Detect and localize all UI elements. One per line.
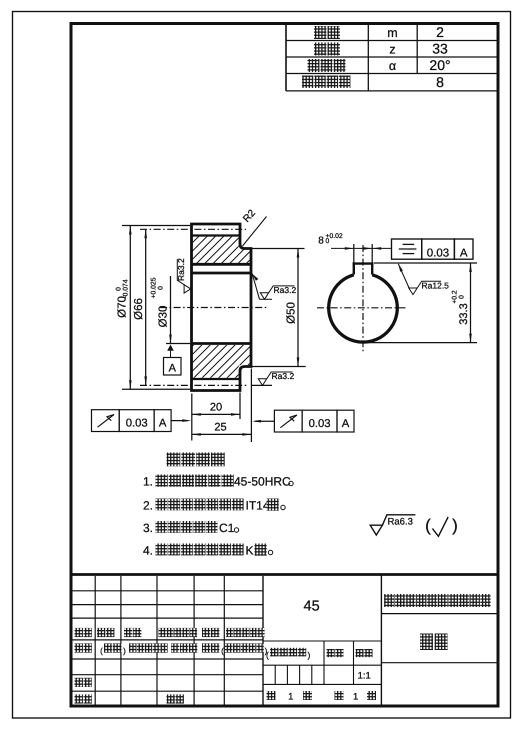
svg-text:(: ( — [221, 647, 224, 656]
svg-text:20: 20 — [210, 402, 222, 414]
svg-text:m: m — [387, 26, 397, 40]
title block left grid horizontals — [73, 590, 264, 592]
svg-text:4.: 4. — [143, 544, 153, 558]
section view axis centerline — [160, 307, 268, 309]
svg-text:): ) — [308, 650, 311, 660]
dim 33.3 dimension line — [470, 263, 472, 343]
dim Ø30 leader/dimension line — [166, 343, 190, 345]
svg-text:Ra3.2: Ra3.2 — [176, 258, 186, 281]
dim Ø50 dimension line — [297, 249, 299, 367]
svg-text:Ra3.2: Ra3.2 — [274, 285, 297, 295]
zhiliang label — [327, 649, 335, 657]
dim Ø70 extension lines — [122, 225, 190, 227]
svg-text:33: 33 — [432, 40, 448, 56]
school name — [384, 594, 394, 607]
svg-text:A: A — [460, 247, 468, 259]
bili label — [356, 649, 364, 657]
part name gear — [420, 634, 433, 651]
svg-text:): ) — [123, 647, 126, 656]
svg-text:1:1: 1:1 — [358, 670, 371, 681]
stage mark small cells — [274, 665, 276, 684]
circular runout frame right (0.03 A) — [274, 410, 302, 432]
title block row: sheji/(qianming)... — [75, 643, 83, 652]
svg-text:3.: 3. — [143, 521, 153, 535]
svg-text:33.3: 33.3 — [458, 303, 470, 324]
svg-text:Ø66: Ø66 — [133, 298, 145, 320]
bore circle (end view) — [329, 275, 398, 342]
svg-text:Ø30: Ø30 — [158, 306, 170, 328]
svg-text:25: 25 — [214, 422, 226, 434]
svg-text:2: 2 — [436, 24, 444, 40]
svg-text:8: 8 — [318, 236, 324, 247]
fillet R2 leader — [243, 217, 267, 247]
title block row: gongyi / pizhun — [75, 694, 83, 703]
svg-text:C1: C1 — [219, 521, 235, 535]
bore lines in section — [192, 272, 252, 275]
leader right frame — [255, 420, 274, 422]
svg-text:A: A — [169, 363, 177, 375]
dim Ø70 dimension line — [129, 226, 131, 390]
svg-text:0: 0 — [157, 286, 164, 290]
keyway slot — [353, 262, 355, 274]
svg-text:Ra3.2: Ra3.2 — [272, 371, 295, 381]
svg-text:45-50HRC: 45-50HRC — [234, 475, 291, 489]
table row: module m=2 — [314, 26, 327, 39]
dim 8 keyway width — [353, 244, 355, 264]
svg-text:1: 1 — [353, 692, 358, 703]
svg-text:Ra12.5: Ra12.5 — [422, 281, 450, 291]
svg-text:0: 0 — [115, 287, 122, 291]
title block top border — [71, 573, 498, 576]
table row: teeth z=33 — [314, 43, 327, 56]
technical requirements title — [167, 453, 181, 467]
svg-text:20°: 20° — [429, 57, 450, 73]
tooth root lines — [192, 234, 241, 236]
surface finish Ra3.2, bore — [252, 274, 258, 281]
gong 1 zhang di 1 zhang — [267, 691, 276, 700]
svg-text:+0.025: +0.025 — [150, 277, 157, 298]
svg-text:K: K — [246, 544, 254, 558]
dim 33.3 extension lines — [374, 262, 477, 264]
svg-text:z: z — [389, 43, 395, 57]
surface finish Ra12.5, keyway — [398, 264, 409, 289]
svg-text:1: 1 — [288, 692, 293, 703]
middle section gridlines — [263, 640, 381, 642]
svg-text:+0.2: +0.2 — [451, 290, 458, 304]
inner drawing frame (thick) — [71, 24, 498, 707]
surface finish Ra3.2, tooth flank — [252, 384, 273, 386]
keyway bottom line in section — [192, 263, 252, 266]
svg-text:Ø50: Ø50 — [286, 302, 298, 324]
symmetry tolerance frame (0.03 A) — [392, 239, 422, 259]
pitch circle dash-dot lines — [140, 228, 246, 230]
svg-text:(: ( — [266, 650, 269, 660]
svg-text:0.03: 0.03 — [309, 418, 331, 430]
circular runout frame left (0.03 A) — [92, 410, 120, 432]
title block row: shenhe — [75, 678, 83, 687]
svg-text:8: 8 — [436, 74, 444, 90]
table row: pressure angle 20deg — [308, 59, 320, 72]
table row: accuracy grade 8 — [302, 76, 314, 89]
svg-text:): ) — [452, 516, 458, 535]
leader left frame — [171, 420, 188, 422]
title block row: biaoji/chushu/fenqu... — [75, 628, 83, 637]
general surface roughness note Ra6.3 — [370, 515, 415, 535]
svg-text:(: ( — [425, 516, 431, 535]
dim 25 — [192, 433, 252, 435]
end view centerlines — [317, 307, 406, 309]
svg-text:Ra6.3: Ra6.3 — [388, 517, 413, 528]
svg-text:45: 45 — [304, 599, 320, 615]
svg-text:0.03: 0.03 — [427, 247, 449, 259]
svg-text:A: A — [342, 418, 350, 430]
gear parameter table — [286, 40, 498, 42]
svg-text:2.: 2. — [143, 499, 153, 513]
gear body outline (section) — [192, 224, 252, 391]
svg-text:0: 0 — [458, 295, 465, 299]
svg-text:IT14: IT14 — [246, 499, 270, 513]
svg-text:0.03: 0.03 — [126, 418, 148, 430]
svg-text:1.: 1. — [143, 475, 153, 489]
dim 20/25 extension lines — [191, 394, 193, 441]
dim 20 — [192, 413, 240, 415]
right column horizontals — [381, 613, 496, 615]
title block left grid verticals — [94, 576, 96, 705]
datum A symbol — [167, 345, 174, 351]
surface finish Ra3.2, left face — [177, 259, 190, 293]
symmetry symbol — [403, 243, 415, 245]
svg-text:-0.074: -0.074 — [122, 279, 129, 298]
dim Ø66 dimension line — [145, 229, 147, 385]
svg-text:α: α — [389, 59, 396, 73]
dim Ø50 extension lines — [252, 248, 305, 250]
svg-text:A: A — [159, 418, 167, 430]
svg-text:0: 0 — [326, 238, 330, 245]
svg-text:(: ( — [100, 647, 103, 656]
